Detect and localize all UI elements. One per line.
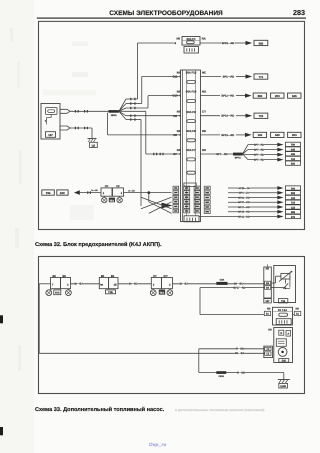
relay coil symbol right [117,196,122,203]
svg-text:N0: N0 [266,267,270,270]
wire 3N-BU segment [228,282,265,286]
splice C9PA [216,371,226,378]
svg-text:N0: N0 [177,129,181,133]
node 645 [288,93,301,98]
svg-text:C8: C8 [173,133,177,137]
svg-text:119: 119 [291,158,296,161]
pump motor symbol [278,348,287,357]
svg-text:24C: 24C [60,191,65,195]
arrow BP15—RD [277,210,283,214]
wire fan row 5 to bottom riser [119,111,141,206]
comb under F5 [276,319,291,325]
node T84 [42,190,55,195]
wire output BP17—RD [204,205,277,209]
svg-text:535: 535 [282,360,287,363]
junction dot [147,191,150,194]
wire output BP37—RD [204,200,277,204]
fuse F8 [173,129,206,142]
inline connector pair [99,275,118,289]
schematic frame scheme 33 [39,257,305,394]
svg-text:СХЕМЫ ЭЛЕКТРООБОРУДОВАНИЯ: СХЕМЫ ЭЛЕКТРООБОРУДОВАНИЯ [109,10,223,17]
svg-text:C9: C9 [173,114,177,118]
arrow BP7 branch 1 [277,143,283,147]
node 582 [254,40,268,45]
svg-text:BP1—RD: BP1—RD [223,76,235,79]
ground symbol pump [278,380,290,389]
pin B5 [265,281,271,285]
ground symbol left [88,139,98,148]
svg-text:BP7—RD: BP7—RD [254,154,264,157]
svg-text:BP13—RD: BP13—RD [221,134,234,137]
wire C7 input [146,153,181,156]
arrow to node 715 [246,114,253,118]
relay module box [264,264,296,302]
svg-text:60A F8: 60A F8 [186,129,196,133]
svg-text:CY: CY [202,110,206,114]
wire F13 output BP1-RD [201,76,246,79]
wire output BP15—RD [204,210,277,214]
svg-text:N0: N0 [177,148,181,152]
node stack2 598 [286,191,301,196]
svg-text:CY: CY [164,275,168,278]
relay contact wiring [271,276,290,289]
svg-text:CF: CF [105,185,109,188]
svg-text:ЦЗ: ЦЗ [92,144,96,147]
wire output BP31—RD [204,196,277,200]
wire pump supply left riser [39,284,50,354]
node 853 [253,93,266,98]
pin E1 right [293,308,301,316]
node 645b [271,132,284,137]
wire fan row 1 to F1 riser [119,43,138,111]
arrow BP7 branch 4 [277,158,283,162]
svg-text:3h—BJ: 3h—BJ [179,283,188,286]
node stack1 245 [286,147,301,151]
svg-text:ЮЗ: ЮЗ [55,292,60,295]
wire battery ground branch [70,127,92,139]
svg-text:Т1Б: Т1Б [108,291,113,294]
svg-text:BP7—RD: BP7—RD [254,144,264,147]
node stack1 780 [286,142,301,146]
wire to relay pair [80,189,101,194]
svg-text:5Б1: 5Б1 [110,199,115,202]
wire F1 input [138,42,177,45]
label T1B [106,290,116,294]
svg-text:N: N [280,332,282,335]
relay CF left [101,185,112,196]
wire diagonal 2 [141,197,172,209]
svg-text:N0: N0 [296,308,300,311]
relay coil inside module [279,271,292,282]
svg-text:A—JA: A—JA [128,189,135,192]
svg-text:245: 245 [291,148,296,151]
arrow BP31—RD [277,196,283,200]
svg-text:645: 645 [292,94,297,98]
label 187 under module [264,299,272,303]
relay coil symbol left [102,196,107,203]
fuse F1 [177,37,206,46]
arrow to node 771 [246,74,253,78]
pin E1 left [264,308,271,316]
wire 3h-BJ segment 3 [173,282,217,286]
wire output BP11—RD [199,215,277,219]
connector comb under F1 [184,47,199,54]
svg-text:BP11—RD: BP11—RD [221,95,234,98]
svg-text:C9A: C9A [220,279,225,282]
label 187 [46,132,56,138]
svg-text:435: 435 [291,153,296,156]
wire junction riser [148,193,150,202]
svg-text:1B3A: 1B3A [111,114,117,117]
battery connector 187 [41,104,60,140]
svg-text:T84: T84 [46,191,51,195]
node stack1 520 [286,161,301,165]
svg-text:853: 853 [258,94,263,98]
svg-text:771: 771 [259,75,264,79]
svg-text:N0: N0 [267,308,271,311]
svg-text:N0: N0 [101,275,105,278]
pump pin strip [264,346,273,358]
wire battery positive feed [70,110,109,113]
label 535 [279,359,289,363]
svg-text:203: 203 [292,133,297,137]
arrow BP1—JA [277,191,283,195]
wire BP17-RD return [200,286,265,315]
wire 3N-BJ pump feed [39,352,264,356]
svg-text:203: 203 [275,94,280,98]
arrow BP17—RD [277,205,283,209]
node 771 [254,74,268,79]
wire fan row 4 to C9 [119,111,181,117]
svg-text:115: 115 [291,206,296,209]
svg-text:132: 132 [291,197,296,200]
wire F10 output BP11-RD [201,95,246,98]
svg-text:5Б1: 5Б1 [160,292,165,295]
fuse block footer comb [184,216,199,222]
svg-text:3h—BJ: 3h—BJ [74,283,83,286]
node stack1 435 [286,152,301,156]
wire R-ND pump feed [199,347,265,351]
relay CF right [113,185,124,196]
motor symbol 1a [46,289,53,296]
svg-text:50A F7: 50A F7 [186,148,196,152]
svg-text:598: 598 [291,192,296,195]
svg-text:735: 735 [281,300,286,303]
svg-text:BP7—RD: BP7—RD [254,159,264,162]
svg-text:60A F9: 60A F9 [186,110,196,114]
svg-text:BP7—RD: BP7—RD [217,153,228,156]
connector pin lower [60,126,70,130]
svg-text:A: A [287,333,289,336]
svg-text:BP7A: BP7A [235,157,241,160]
wire 3h-BJ segment 1 [71,282,100,286]
node stack2 115 [286,205,301,210]
wire F7 output BP7-RD [201,152,234,156]
node stack2 760 [286,186,301,191]
arrow to nodes 104 645 203 [245,133,252,137]
wire output BP1—JA [204,191,277,195]
svg-text:BP7—RD: BP7—RD [254,149,264,152]
node stack2 132 [286,195,301,200]
svg-text:BP11—RD: BP11—RD [238,215,250,218]
wire fan row 2 to C11 riser [119,77,142,112]
svg-text:BP17—RD: BP17—RD [233,286,245,289]
arrow BP37—RD [277,200,283,204]
svg-text:R—ND: R—ND [236,348,244,351]
svg-text:BP14—RD: BP14—RD [221,115,234,118]
svg-text:CF: CF [116,185,120,188]
node 24C [57,190,68,195]
svg-text:718: 718 [291,202,296,205]
page left margin shading [0,0,34,453]
svg-text:104: 104 [258,133,263,137]
label 5B1 dark [159,290,165,295]
arrow BP7 branch 3 [277,153,283,157]
wire F9 output BP14-RD [201,115,246,118]
wire fan row 3 to C10 riser [119,96,148,112]
wire R-ND ground run [199,349,284,380]
label 735 under module [278,299,287,303]
svg-text:N0: N0 [268,328,272,331]
binding mark upper [0,315,3,323]
wire splice to C7 riser [119,111,146,154]
wire BP7 branch 2 [243,148,278,154]
wedge of converging wires into fuse block [162,203,173,209]
wire C11 input [142,76,181,78]
svg-text:F5 7.5A: F5 7.5A [278,309,287,312]
svg-text:N0: N0 [111,275,115,278]
svg-text:30A F13: 30A F13 [186,71,197,75]
svg-text:3N—BU: 3N—BU [234,283,244,286]
fuse F10 [172,90,206,103]
arrow to nodes 853 203 645 [245,94,252,98]
arrow to node 582 [246,41,253,45]
svg-text:BP81—RD: BP81—RD [222,42,235,45]
svg-text:520: 520 [291,162,296,165]
svg-text:645: 645 [275,133,280,137]
wire BP7 branch 3 [243,153,278,157]
svg-text:и дополнительным топливным нас: и дополнительным топливным насосом (окон… [175,408,264,412]
node stack1 119 [286,156,301,160]
svg-text:1Б: 1Б [114,283,117,286]
margin scan smudges [10,28,22,371]
svg-text:A—JA: A—JA [91,189,98,192]
svg-text:275: 275 [291,216,296,219]
wire relay to fuse block [124,189,172,192]
node stack2 718 [286,200,301,205]
pin B3 [265,286,271,290]
fuse block lower connector pins [173,186,200,213]
wire output AP25—JA [204,186,277,190]
svg-text:Схема 32. Блок предохранителей: Схема 32. Блок предохранителей (K4J АКПП… [35,241,162,248]
binding mark lower [0,427,3,435]
node stack2 988 [286,210,301,215]
print-through ghost smudges [43,42,96,221]
svg-text:0в: 0в [100,283,103,286]
node 203b [288,132,301,137]
fuse F13 [173,71,207,84]
svg-text:BP15—RD: BP15—RD [238,211,250,214]
svg-text:AP25—JA: AP25—JA [239,187,250,190]
wire F8 output BP13-RD [201,134,246,137]
svg-text:BP37—RD: BP37—RD [238,201,250,204]
fuse block lower connector top cell [184,183,196,187]
fuse F5 unit [273,307,293,325]
wire diagonal 3 [149,202,172,214]
fuel pump module [268,328,292,363]
motor symbol 1b [66,289,72,296]
node stack2 275 [286,214,301,219]
arrow BP11—RD [277,215,283,219]
fuse F7 [173,148,207,161]
splice 1B3A [109,110,119,117]
svg-text:988: 988 [291,211,296,214]
wire 3h-BJ segment 2 [118,282,151,286]
svg-text:780: 780 [291,144,296,147]
svg-text:ЦЗМ: ЦЗМ [280,385,285,388]
svg-text:N0: N0 [177,37,181,41]
wire diagonal 1 [141,197,172,209]
wire BP7 branch 1 [243,143,278,154]
svg-text:N0: N0 [177,110,181,114]
svg-text:C9PA: C9PA [218,375,224,378]
svg-text:3N—BJ: 3N—BJ [235,352,245,355]
node 203 [271,93,284,98]
header rule [37,18,306,19]
arrow AP25—JA [277,186,283,190]
svg-text:715: 715 [259,114,264,118]
svg-text:BP31—RD: BP31—RD [238,196,250,199]
svg-text:R—ND: R—ND [237,371,245,374]
svg-text:187: 187 [265,300,270,303]
wire F1 output BP81-RD [200,42,246,45]
fuse block outline [181,70,201,222]
pump pair connector 1 [51,275,71,289]
wire BP7 branch 4 [243,154,278,162]
svg-text:RA: RA [202,37,206,41]
svg-text:BP17—RD: BP17—RD [238,206,250,209]
svg-text:Схема 33. Дополнительный топли: Схема 33. Дополнительный топливный насос… [35,406,165,413]
svg-text:60A F10: 60A F10 [186,90,197,94]
wire C10 input [148,95,181,97]
node 104 [253,132,266,137]
motor symbol 2a [150,289,156,296]
connector pin upper [60,109,70,113]
wire diagonal 4 [149,202,172,214]
svg-text:3h—BJ: 3h—BJ [129,283,138,286]
splice BP7A [233,153,243,160]
svg-text:Окр_ru: Окр_ru [149,442,167,447]
motor symbol 2b [167,289,173,296]
svg-text:BP1—JA: BP1—JA [239,192,249,195]
relay label 5B1 [109,198,115,203]
node 715 [254,113,268,118]
svg-text:582: 582 [259,41,264,45]
svg-text:283: 283 [293,8,305,17]
fuse F9 [173,110,206,123]
svg-text:760: 760 [291,187,296,190]
label YU3 [54,290,61,295]
svg-text:187: 187 [48,134,53,137]
arrow BP7 branch 2 [277,148,283,152]
arrow left output [74,190,80,195]
splice C9A [216,279,227,285]
schematic frame scheme 32 [39,21,305,229]
fuse F6 body [187,171,195,174]
wire splice branch to C8 [108,113,181,135]
svg-text:NC: NC [202,71,206,75]
svg-text:RD: RD [202,129,206,133]
relay pair CY [151,275,172,289]
